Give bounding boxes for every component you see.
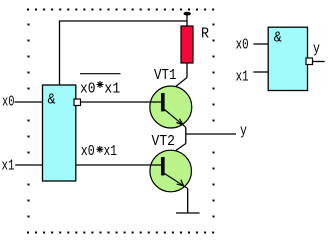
svg-text:x1: x1 bbox=[236, 69, 249, 86]
output wire y bbox=[186, 133, 236, 135]
svg-text:x1: x1 bbox=[2, 158, 15, 175]
ground bbox=[176, 212, 200, 214]
wire DD1 lower output to VT2 base bbox=[76, 164, 161, 166]
overline of x0*x1 bbox=[80, 73, 121, 75]
NAND input wire x1 bbox=[253, 71, 268, 73]
VT2 emitter lead with arrow bbox=[165, 174, 188, 189]
VT2 base bar bbox=[161, 157, 165, 175]
VT2 collector lead bbox=[165, 144, 186, 159]
transistor VT1 body bbox=[150, 86, 192, 128]
svg-text:x0: x0 bbox=[81, 143, 95, 160]
svg-text:VT2: VT2 bbox=[152, 133, 176, 150]
svg-text:x0: x0 bbox=[2, 94, 15, 111]
transistor VT2 body bbox=[150, 150, 192, 192]
input wire x1 bbox=[15, 164, 42, 166]
svg-text:x1: x1 bbox=[104, 143, 118, 160]
inversion square on NAND output bbox=[306, 58, 313, 65]
svg-text:x0: x0 bbox=[80, 81, 96, 98]
NAND gate symbol body (right) bbox=[268, 27, 307, 90]
wire DD1 output to VT1 base bbox=[81, 101, 162, 103]
VT1 collector lead bbox=[165, 78, 188, 96]
node label x0*x1 bbox=[81, 143, 117, 160]
svg-text:&: & bbox=[48, 92, 56, 109]
svg-text:R: R bbox=[201, 26, 209, 43]
wire junction to resistor bbox=[186, 14, 188, 26]
wire from gate top to supply rail bbox=[60, 21, 188, 85]
svg-text:&: & bbox=[274, 30, 282, 47]
wire resistor to VT1 collector bbox=[186, 63, 188, 78]
junction dot on supply node bbox=[184, 12, 191, 16]
svg-text:y: y bbox=[313, 41, 320, 58]
input wire x0 bbox=[15, 101, 43, 103]
svg-text:x1: x1 bbox=[104, 81, 120, 98]
wire VT2 emitter to ground bbox=[187, 189, 189, 214]
VT1 base bar bbox=[161, 93, 165, 111]
NAND output wire bbox=[313, 61, 325, 63]
resistor R bbox=[181, 26, 193, 63]
svg-text:VT1: VT1 bbox=[154, 67, 177, 84]
svg-text:x0: x0 bbox=[236, 37, 249, 54]
NAND input wire x0 bbox=[253, 43, 268, 45]
wire VT1 emitter to VT2 collector bbox=[185, 127, 187, 143]
svg-text:y: y bbox=[240, 123, 247, 140]
inversion square on DD1 output bbox=[74, 99, 81, 106]
node label inverted x0*x1 bbox=[80, 81, 120, 98]
AND gate DD1 body bbox=[43, 85, 76, 181]
dashed chip boundary bbox=[27, 10, 214, 233]
VT1 emitter lead with arrow bbox=[165, 110, 186, 128]
